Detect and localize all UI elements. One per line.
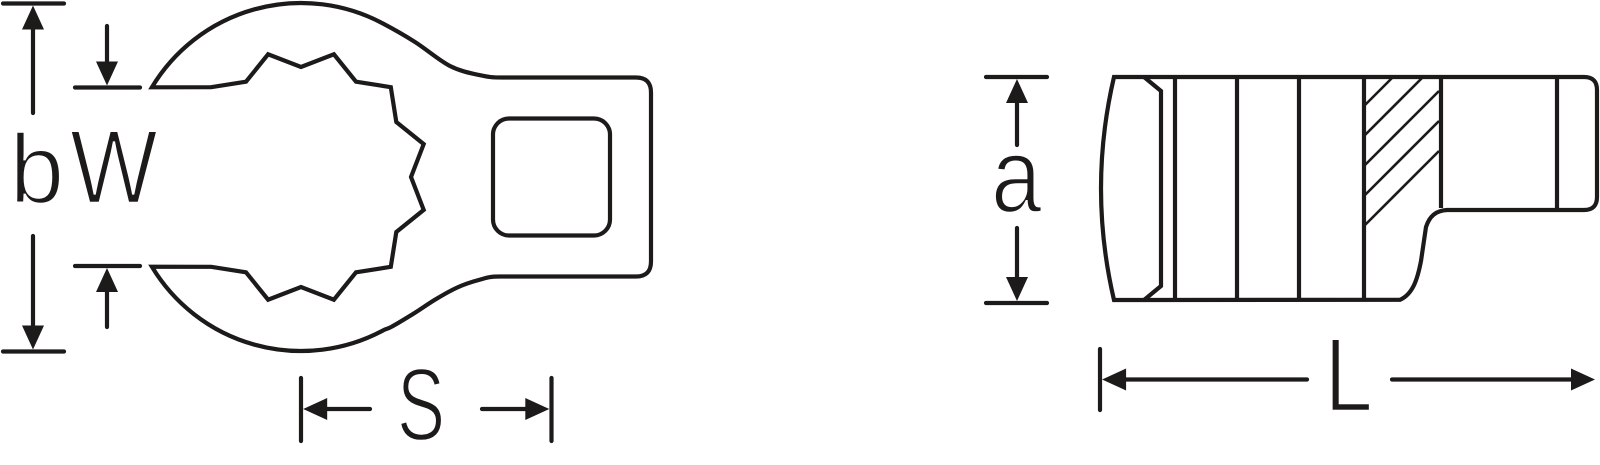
dim a top tick: [986, 75, 1047, 79]
arrowhead b up: [22, 6, 44, 30]
edge line x=1299: [1297, 77, 1301, 300]
right view: side profile outline: [1101, 77, 1597, 300]
hatch line: [1364, 151, 1439, 226]
arrowhead L right: [1571, 369, 1595, 391]
dim S right tick: [549, 378, 553, 441]
dim a bottom shaft: [1015, 228, 1019, 280]
dim S left tick: [299, 378, 303, 441]
dim a top shaft: [1015, 100, 1019, 145]
dim b bottom tick: [3, 349, 64, 353]
svg-text:S: S: [397, 347, 445, 460]
arrowhead L left: [1102, 369, 1126, 391]
hatch line: [1364, 77, 1423, 136]
hatch line: [1364, 121, 1439, 196]
left view: crowfoot ring spanner outline with 12-point opening: [152, 3, 651, 351]
dim S right shaft: [482, 407, 529, 411]
arrowhead a down: [1006, 277, 1028, 301]
square drive hole: [493, 119, 610, 236]
hatch line: [1364, 77, 1393, 106]
arrowhead W up: [96, 268, 118, 292]
svg-text:L: L: [1325, 317, 1373, 433]
dim L left tick: [1098, 349, 1102, 410]
dim b top tick: [3, 1, 64, 5]
edge line x=1175: [1173, 77, 1177, 300]
dim W bottom tick: [75, 264, 140, 268]
arrowhead S right: [525, 398, 549, 420]
svg-text:a: a: [991, 116, 1042, 236]
dim W bottom shaft: [105, 290, 109, 327]
ring chamfer edge: [1144, 77, 1161, 300]
tang end groove line: [1555, 77, 1559, 210]
arrowhead S left: [303, 398, 327, 420]
dim S left shaft: [322, 407, 370, 411]
dim L right shaft: [1392, 377, 1574, 381]
dim b lower shaft: [31, 236, 35, 329]
dim a bottom tick: [986, 301, 1047, 305]
arrowhead a up: [1006, 79, 1028, 103]
dim b upper shaft: [31, 27, 35, 113]
arrowhead W down: [96, 62, 118, 86]
dim W top tick: [75, 85, 140, 89]
dim W top shaft: [105, 26, 109, 63]
section boundary edge: [1439, 77, 1443, 208]
dim L left shaft: [1123, 377, 1307, 381]
svg-text:b: b: [10, 114, 65, 224]
hatch line: [1364, 91, 1439, 166]
edge line x=1364: [1362, 77, 1366, 300]
edge line x=1237: [1235, 77, 1239, 300]
arrowhead b down: [22, 326, 44, 350]
svg-text:W: W: [70, 109, 158, 227]
